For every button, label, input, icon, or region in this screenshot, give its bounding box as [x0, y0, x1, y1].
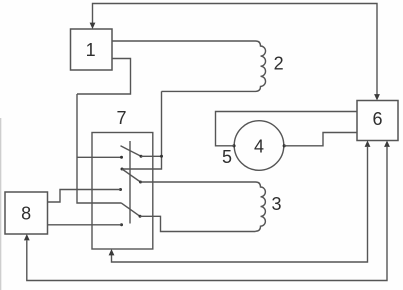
block 7 (switch unit) — [92, 133, 153, 250]
wire S1 output to feeder junction — [141, 155, 162, 157]
wire block8 step up to S3 fixed contact — [48, 190, 121, 203]
node motor left brush — [232, 144, 235, 147]
inductor L3 (coil, 4 right-bulging scallops) — [256, 182, 266, 231]
wire block1 right to coil L2 top — [112, 40, 256, 42]
wire block1 step down to left bus — [77, 59, 131, 95]
node S3 fixed contact — [119, 188, 122, 191]
node S1 output contact — [140, 155, 143, 158]
svg-text:5: 5 — [222, 147, 232, 167]
wire coil L2 bottom to vertical feeder — [162, 90, 256, 92]
wire branch to switch S1 fixed contact — [77, 156, 122, 158]
wire bus from block8 bottom to block6 bottom — [27, 147, 387, 281]
wire vertical feeder down to switch S2 pivot — [122, 91, 162, 169]
switch S2 blade — [122, 169, 141, 182]
node S2 output contact — [139, 181, 142, 184]
wire left bus vertical down to blade S3 feed — [77, 94, 121, 203]
switch S1 blade — [121, 146, 142, 157]
node junction on feeder — [160, 155, 163, 158]
wire top feedback bus (into block 1 and block 6 tops) — [93, 4, 378, 96]
svg-text:8: 8 — [21, 203, 31, 223]
svg-text:1: 1 — [86, 40, 96, 60]
wire bus from block7 bottom to block6 bottom — [112, 147, 368, 262]
arrowhead into block 7 bottom — [109, 249, 115, 255]
arrowhead into block 6 top — [374, 94, 380, 100]
svg-text:7: 7 — [116, 108, 126, 128]
block 6 — [357, 101, 398, 141]
inductor L2 (coil, 4 right-bulging scallops) — [256, 41, 266, 91]
wire S2 output to coil L3 top — [141, 181, 256, 183]
node S1 fixed contact — [120, 156, 123, 159]
wire motor right brush to block 6 lower input — [284, 133, 357, 146]
motor M (circle 4) — [234, 121, 284, 171]
switch S3 blade — [121, 203, 140, 217]
node motor right brush — [283, 144, 286, 147]
node S2 pivot — [121, 168, 124, 171]
svg-text:6: 6 — [372, 109, 382, 129]
wire S3 output step to coil L3 bottom — [140, 216, 256, 231]
arrowhead into block 6 bottom (right) — [384, 141, 390, 147]
switch linkage bar — [129, 141, 131, 224]
wire motor left brush to block 6 upper input — [216, 112, 358, 146]
arrowhead into block 6 bottom (left) — [365, 141, 371, 147]
svg-text:4: 4 — [254, 136, 264, 156]
wire block8 to S4 contact — [48, 224, 122, 226]
block 1 — [71, 29, 113, 70]
block 8 — [5, 192, 48, 234]
arrowhead into block 8 bottom — [24, 234, 30, 240]
node S4 contact — [120, 223, 123, 226]
node S3 output contact — [139, 215, 142, 218]
svg-text:3: 3 — [271, 194, 281, 214]
arrowhead into block 1 top — [90, 23, 96, 29]
svg-text:2: 2 — [274, 53, 284, 73]
